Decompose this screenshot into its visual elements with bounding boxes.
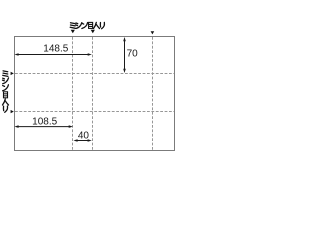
dimension 70 line (123, 37, 126, 73)
perforation line V2 (vertical dashed) (92, 37, 94, 150)
paper outline rectangle (15, 37, 175, 151)
perforation line H1 (horizontal dashed) (15, 73, 174, 75)
svg-text:70: 70 (127, 49, 139, 60)
svg-text:40: 40 (78, 131, 90, 142)
dimension 40 line (73, 139, 91, 142)
left label mishin-me-iri (vertical) (2, 71, 8, 112)
top arrow to V3 (151, 31, 155, 34)
dimension 108.5 line (14, 125, 73, 128)
svg-text:148.5: 148.5 (43, 44, 68, 55)
dimension 148.5 line (14, 53, 92, 56)
perforation line V1 (vertical dashed) (72, 37, 74, 150)
perforation line V3 (vertical dashed) (152, 37, 154, 150)
perforation line H2 (horizontal dashed) (15, 111, 174, 113)
top label mishin-me-iri (70, 22, 104, 28)
svg-text:108.5: 108.5 (32, 116, 57, 127)
left arrow to H1 (11, 72, 14, 75)
top arrow to V2 (91, 30, 95, 33)
top arrow to V1 (71, 30, 75, 33)
left arrow to H2 (11, 110, 14, 113)
